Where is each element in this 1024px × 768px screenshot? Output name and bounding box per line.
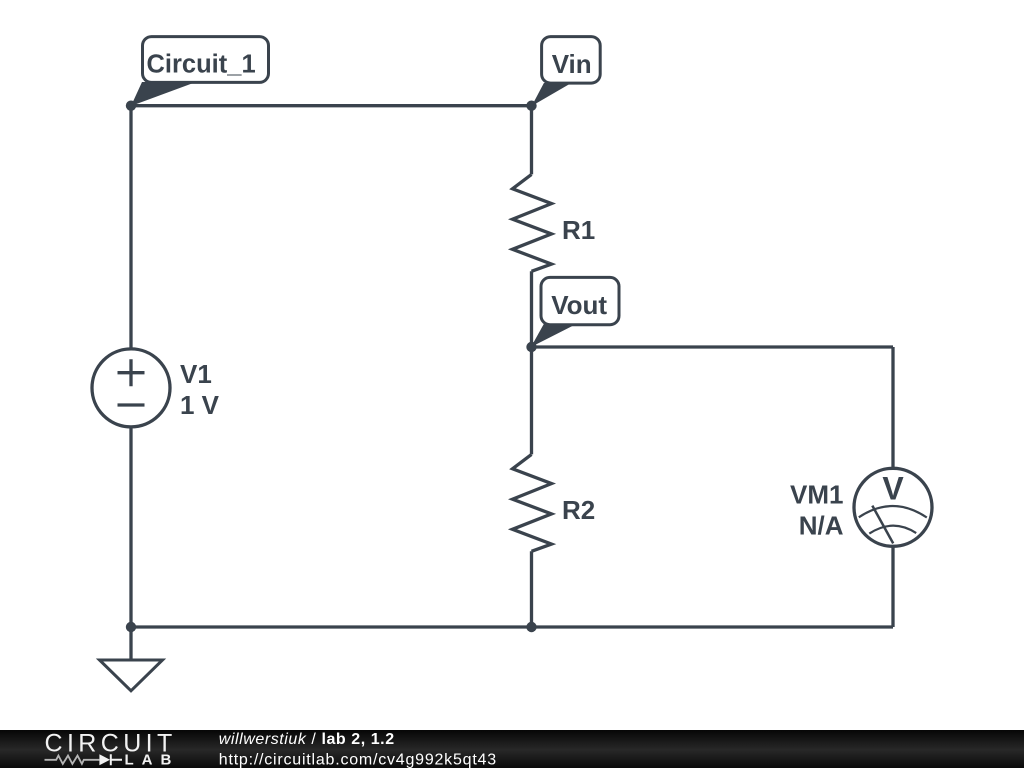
svg-text:willwerstiuk / lab 2, 1.2: willwerstiuk / lab 2, 1.2 [219,731,395,748]
voltmeter arc lower [869,526,916,534]
logo diode [99,754,110,765]
V1 minus sign [118,403,145,406]
label bubble Vin [532,37,600,106]
footer bar [0,730,1024,768]
label bubble Circuit_1 [131,37,269,106]
wire Vout horizontal [532,345,894,348]
voltmeter needle [872,506,893,544]
wire R2 to bottom [530,551,533,627]
resistor R1 [513,174,552,271]
svg-text:LAB: LAB [125,752,180,768]
node dots [126,101,537,633]
node top-left [126,101,136,111]
wire Vin to R1 [530,106,533,175]
logo diode bar [111,754,122,765]
node Vin [526,101,536,111]
wire left vertical lower [129,428,132,627]
wire top horizontal [131,104,532,107]
wire bottom horizontal [131,625,893,628]
V1 plus sign [118,359,145,386]
node bottom-left [126,622,136,632]
wire voltmeter bottom [891,547,894,627]
resistor R2 [513,454,552,551]
node Vout [526,342,536,352]
voltmeter VM1 circle [854,468,932,546]
voltmeter needle and arcs [859,506,927,544]
voltmeter arc upper [859,506,927,518]
label bubble Vout [531,277,619,347]
logo wire with resistor [45,756,100,764]
node bottom-middle [526,622,536,632]
wire voltmeter top [891,347,894,468]
wire R1 to R2 [530,271,533,454]
voltage source V1 circle [92,349,170,427]
wire left vertical upper [129,106,132,348]
ground stub [129,627,132,660]
ground triangle [100,660,163,691]
svg-text:http://circuitlab.com/cv4g992k: http://circuitlab.com/cv4g992k5qt43 [219,751,497,768]
